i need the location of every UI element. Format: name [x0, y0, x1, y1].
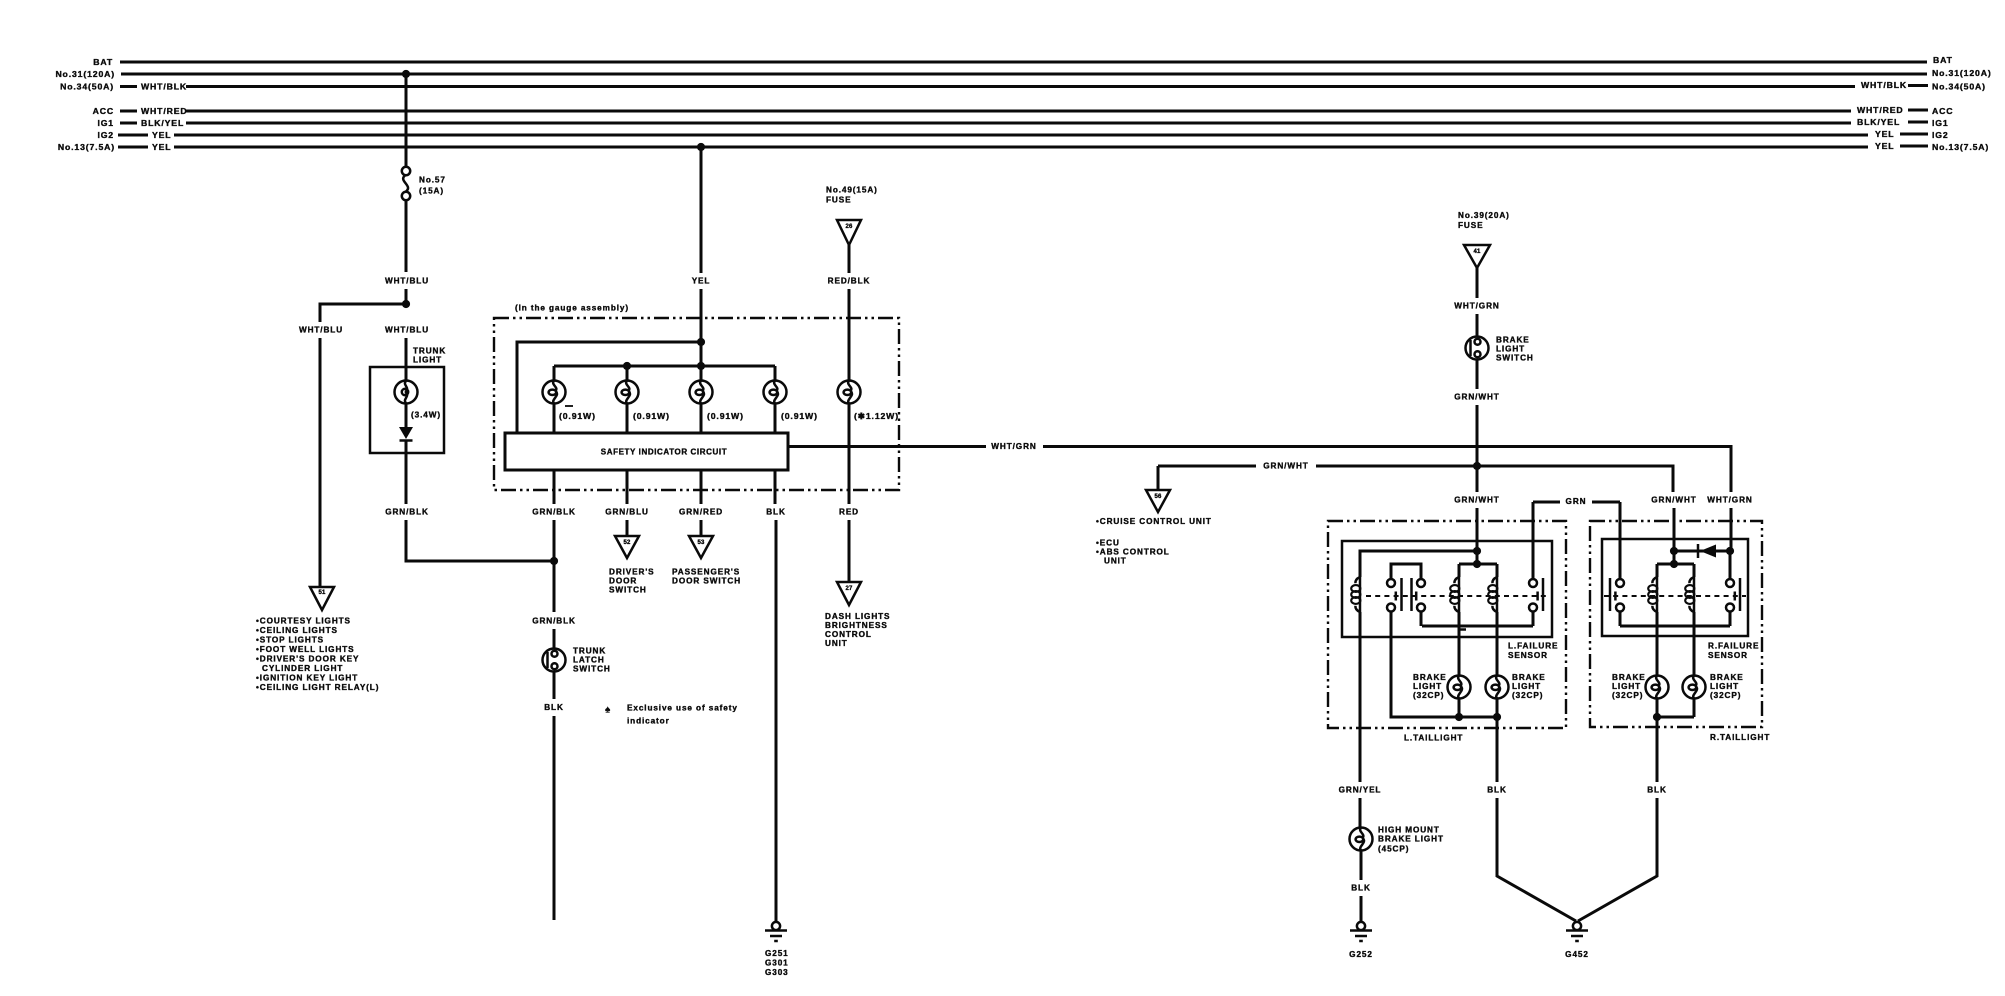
svg-text:LIGHT: LIGHT [413, 356, 442, 365]
svg-text:GRN/YEL: GRN/YEL [1339, 786, 1382, 795]
coil L3 [1496, 564, 1499, 577]
node junction A [402, 300, 410, 308]
svg-text:BRAKE: BRAKE [1710, 673, 1744, 682]
svg-text:•ABS CONTROL: •ABS CONTROL [1096, 548, 1170, 557]
svg-text:WHT/BLU: WHT/BLU [385, 277, 429, 286]
coil R1 [1656, 564, 1659, 577]
wire IG2 stub left [118, 134, 148, 137]
brake light bulb R1 (32CP) [1646, 676, 1669, 699]
svg-text:(32CP): (32CP) [1612, 691, 1643, 700]
safety indicator circuit U1 [505, 433, 788, 470]
svg-text:HIGH MOUNT: HIGH MOUNT [1378, 826, 1440, 835]
svg-text:(32CP): (32CP) [1512, 691, 1543, 700]
wire high mount down [1360, 851, 1363, 881]
wire GRN jumper left [1533, 501, 1560, 504]
wire bulb L1 top [1458, 626, 1461, 676]
svg-text:WHT/BLU: WHT/BLU [385, 326, 429, 335]
coil L1 (left) [1351, 577, 1360, 612]
wire fuse 39 down [1476, 268, 1479, 298]
wire contact K1 bracket [1391, 564, 1421, 580]
contact K4 terminals [1726, 579, 1734, 587]
svg-text:FUSE: FUSE [1458, 221, 1483, 230]
wire GRN/WHT horizontal [1158, 465, 1256, 468]
wire contact K4 bottom stem [1729, 612, 1732, 627]
svg-text:SENSOR: SENSOR [1708, 651, 1748, 660]
wire R bulb bottom bar [1657, 716, 1694, 719]
svg-text:CONTROL: CONTROL [825, 630, 872, 639]
svg-text:LIGHT: LIGHT [1512, 682, 1541, 691]
L taillight dashed box [1328, 521, 1566, 728]
svg-text:YEL: YEL [152, 130, 171, 140]
svg-text:R.FAILURE: R.FAILURE [1708, 642, 1759, 651]
svg-text:(✱1.12W): (✱1.12W) [854, 411, 899, 421]
svg-text:Exclusive use of safety: Exclusive use of safety [627, 704, 738, 713]
svg-text:No.31(120A): No.31(120A) [1932, 68, 1992, 78]
contact K3 plate [1609, 578, 1612, 611]
wire bulb4 top [774, 366, 777, 381]
svg-text:WHT/GRN: WHT/GRN [1707, 496, 1752, 505]
wire IG1 bus [186, 122, 1851, 125]
svg-text:G452: G452 [1565, 950, 1589, 959]
wire stub at coil L2 bottom [1459, 628, 1466, 631]
wire GRN jumper right [1592, 501, 1620, 504]
brake light switch S2 [1466, 337, 1489, 360]
svg-text:GRN/RED: GRN/RED [679, 508, 723, 517]
R taillight dashed box [1590, 521, 1762, 727]
L failure sensor box [1342, 541, 1552, 637]
svg-text:(0.91W): (0.91W) [707, 411, 744, 421]
fuse No.49 connector triangle [837, 220, 861, 245]
svg-text:(0.91W): (0.91W) [633, 411, 670, 421]
ground G252 [1350, 922, 1372, 941]
svg-text:LIGHT: LIGHT [1413, 682, 1442, 691]
svg-text:LIGHT: LIGHT [1612, 682, 1641, 691]
svg-text:(32CP): (32CP) [1710, 691, 1741, 700]
wire bulb L1 bottom [1458, 699, 1461, 718]
svg-text:BLK: BLK [1487, 786, 1507, 795]
wire bulb to diode [405, 403, 408, 428]
svg-text:YEL: YEL [1875, 129, 1894, 139]
svg-text:DOOR: DOOR [609, 577, 637, 586]
ground G452 [1566, 922, 1588, 941]
svg-text:(In the gauge assembly): (In the gauge assembly) [515, 304, 629, 313]
svg-text:GRN/BLK: GRN/BLK [532, 508, 576, 517]
contact K2 plate [1542, 578, 1545, 611]
svg-text:G251: G251 [765, 949, 789, 958]
node bulb L1 bottom junction [1455, 713, 1463, 721]
wire contact K1 right stem [1420, 612, 1423, 627]
wire pin4 below box (BLK) [774, 470, 777, 504]
svg-text:(0.91W): (0.91W) [781, 411, 818, 421]
svg-text:No.34(50A): No.34(50A) [60, 82, 114, 92]
svg-text:indicator: indicator [627, 717, 670, 726]
wire left branch down [319, 338, 322, 587]
fuse No.57 (15A) [402, 167, 410, 175]
svg-text:BLK/YEL: BLK/YEL [141, 118, 184, 128]
svg-text:IG1: IG1 [97, 118, 114, 128]
trunk latch switch S1 [543, 649, 566, 672]
svg-text:TRUNK: TRUNK [573, 647, 606, 656]
wire No.13 stub right [1900, 145, 1928, 148]
fuse No.39 connector triangle [1464, 245, 1490, 268]
bulb indicator 4 (0.91W) [764, 381, 787, 404]
node bus junction b3 [697, 362, 705, 370]
wire cruise branch down [1157, 466, 1160, 490]
bulb trunk light (3.4W) [395, 381, 418, 404]
wire GRN/WHT into coil bar [1476, 551, 1479, 564]
wire bulb R2 bottom [1693, 699, 1696, 718]
wire L BLK to ground [1497, 798, 1576, 921]
wire latch down [553, 672, 556, 700]
wire GRN into R taillight [1619, 502, 1622, 580]
node GRN/WHT junction in L sensor [1473, 547, 1481, 555]
svg-text:(45CP): (45CP) [1378, 845, 1409, 854]
contact K2 terminals [1529, 579, 1537, 587]
node WHT/GRN junction in R sensor [1726, 547, 1734, 555]
svg-text:•CEILING LIGHT RELAY(L): •CEILING LIGHT RELAY(L) [256, 683, 379, 692]
svg-text:G303: G303 [765, 968, 789, 977]
svg-text:YEL: YEL [1875, 141, 1894, 151]
wire pin3 below box (GRN/RED) [700, 470, 703, 504]
svg-text:FUSE: FUSE [826, 196, 851, 205]
wire to latch switch [553, 561, 556, 612]
wire YEL into gauge assembly [700, 289, 703, 381]
trunk light box [370, 367, 444, 453]
node GRN/WHT junction in R sensor [1670, 547, 1678, 555]
wire contact K3 bottom stem [1619, 612, 1622, 627]
node GRN/WHT junction [1473, 462, 1481, 470]
wire GRN/WHT to L taillight [1476, 466, 1479, 492]
svg-text:RED/BLK: RED/BLK [828, 277, 871, 286]
svg-text:SENSOR: SENSOR [1508, 651, 1548, 660]
wire bulb L2 top [1496, 626, 1499, 676]
connector 53 [689, 536, 713, 558]
wire bulb2 bottom [626, 403, 629, 433]
node bulb R1 bottom junction [1653, 713, 1661, 721]
node coil bar junction [1473, 560, 1481, 568]
wire branch left [320, 304, 406, 322]
wire ACC stub right [1908, 109, 1928, 112]
node junction trunk branch [550, 557, 558, 565]
connector 51 [310, 587, 334, 610]
svg-text:IG2: IG2 [97, 130, 114, 140]
svg-text:No.13(7.5A): No.13(7.5A) [58, 142, 115, 152]
svg-text:No.39(20A): No.39(20A) [1458, 211, 1510, 220]
svg-text:BRAKE: BRAKE [1496, 336, 1530, 345]
svg-text:L.FAILURE: L.FAILURE [1508, 642, 1558, 651]
svg-text:SWITCH: SWITCH [609, 586, 647, 595]
wire No.34 stub right [1908, 84, 1928, 87]
svg-text:DASH LIGHTS: DASH LIGHTS [825, 612, 890, 621]
wire bulb bus [554, 365, 775, 368]
wire WHT/GRN from safety indicator circuit [788, 445, 986, 448]
svg-text:IG1: IG1 [1932, 118, 1949, 128]
coil R2 [1693, 564, 1696, 577]
svg-text:•ECU: •ECU [1096, 539, 1120, 548]
node YEL junction [697, 338, 705, 346]
wire IG1 stub left [120, 122, 137, 125]
contact K4 plate [1739, 578, 1742, 611]
wire BLK to ground G252 [1360, 896, 1363, 923]
svg-text:•STOP LIGHTS: •STOP LIGHTS [256, 636, 324, 645]
wire bulb5 down [848, 403, 851, 504]
wire bulb L2 bottom [1496, 699, 1499, 718]
wire to latch switch 2 [553, 629, 556, 649]
wire to brake light switch [1476, 314, 1479, 337]
contact K1 terminals [1387, 579, 1395, 587]
svg-text:41: 41 [1473, 249, 1481, 255]
svg-text:SWITCH: SWITCH [573, 665, 611, 674]
bulb indicator 2 (0.91W) [616, 381, 639, 404]
svg-text:LIGHT: LIGHT [1710, 682, 1739, 691]
wire RED/BLK down [848, 289, 851, 381]
node R coil bar junction [1670, 560, 1678, 568]
wire switch out down [1476, 405, 1479, 466]
wire GRN/WHT to right [1316, 466, 1673, 492]
wire WHT/GRN into R taillight [1730, 508, 1733, 551]
svg-text:No.13(7.5A): No.13(7.5A) [1932, 142, 1989, 152]
svg-text:•DRIVER'S DOOR KEY: •DRIVER'S DOOR KEY [256, 655, 359, 664]
wire No.31 bus [121, 73, 1927, 76]
wire bulb R1 bottom [1656, 699, 1659, 718]
wire bulb1 top [553, 366, 556, 381]
contact K3 terminals [1616, 579, 1624, 587]
svg-text:GRN: GRN [1566, 497, 1587, 506]
svg-text:BLK: BLK [544, 703, 564, 712]
actuator tick marks R [1615, 592, 1734, 601]
svg-text:BLK/YEL: BLK/YEL [1857, 117, 1900, 127]
wire from No.31 down to fuse No.57 [405, 74, 408, 167]
wire No.13 down (YEL) [700, 147, 703, 273]
svg-text:No.57: No.57 [419, 176, 446, 185]
wire bulb R2 top [1693, 626, 1696, 676]
svg-text:BRAKE LIGHT: BRAKE LIGHT [1378, 835, 1444, 844]
brake light bulb R2 (32CP) [1683, 676, 1706, 699]
wire GRN into L taillight [1532, 502, 1535, 580]
svg-text:YEL: YEL [152, 142, 171, 152]
svg-text:56: 56 [1154, 494, 1162, 500]
high mount brake light bulb (45CP) [1350, 828, 1373, 851]
svg-text:GRN/WHT: GRN/WHT [1651, 496, 1696, 505]
wire bulb2 top [626, 366, 629, 381]
wire bulb1 bottom [553, 403, 556, 433]
brake light bulb L2 (32CP) [1486, 676, 1509, 699]
wire R coil bottom bar [1620, 625, 1730, 628]
svg-text:•CRUISE CONTROL UNIT: •CRUISE CONTROL UNIT [1096, 517, 1212, 526]
svg-text:27: 27 [845, 586, 853, 592]
svg-text:WHT/RED: WHT/RED [1857, 105, 1904, 115]
svg-text:51: 51 [318, 590, 326, 596]
svg-text:No.49(15A): No.49(15A) [826, 186, 878, 195]
svg-text:26: 26 [845, 224, 853, 230]
node bus junction b2 [623, 362, 631, 370]
svg-text:WHT/BLK: WHT/BLK [1861, 80, 1907, 90]
svg-text:WHT/GRN: WHT/GRN [991, 442, 1036, 451]
wire trunk branch to junction with latch line [406, 520, 554, 561]
wire RED down [848, 520, 851, 582]
brake light bulb L1 (32CP) [1448, 676, 1471, 699]
coil L2 [1458, 564, 1461, 577]
wire L BLK down [1496, 717, 1499, 782]
svg-text:G252: G252 [1349, 950, 1373, 959]
wire to junction A [405, 289, 408, 304]
svg-text:GRN/BLU: GRN/BLU [605, 508, 649, 517]
svg-text:G301: G301 [765, 959, 789, 968]
wire switch down [1476, 360, 1479, 390]
bulb indicator 1 (0.91W) [543, 381, 566, 404]
svg-text:WHT/GRN: WHT/GRN [1454, 302, 1499, 311]
svg-text:BLK: BLK [1351, 884, 1371, 893]
svg-text:GRN/BLK: GRN/BLK [385, 508, 429, 517]
wire No.34 bus [186, 85, 1855, 88]
actuator tick marks L [1396, 592, 1538, 601]
connector 56 [1146, 490, 1170, 512]
wire IG2 stub right [1900, 133, 1928, 136]
wire bulb4 bottom [774, 403, 777, 433]
svg-text:No.31(120A): No.31(120A) [55, 69, 115, 79]
svg-text:52: 52 [623, 540, 631, 546]
contact K1 plates [1402, 578, 1412, 611]
svg-text:BRAKE: BRAKE [1512, 673, 1546, 682]
wire BAT bus [120, 61, 1927, 64]
svg-text:(0.91W): (0.91W) [559, 411, 596, 421]
wire WHT/GRN to right [1043, 447, 1731, 493]
svg-text:WHT/BLU: WHT/BLU [299, 326, 343, 335]
svg-text:•COURTESY LIGHTS: •COURTESY LIGHTS [256, 617, 351, 626]
svg-text:BRAKE: BRAKE [1413, 673, 1447, 682]
svg-text:ACC: ACC [93, 106, 114, 116]
svg-text:(3.4W): (3.4W) [411, 411, 441, 420]
wire fuse 49 down [848, 245, 851, 273]
svg-text:No.34(50A): No.34(50A) [1932, 82, 1986, 92]
diode in trunk light [399, 427, 413, 439]
svg-text:DOOR SWITCH: DOOR SWITCH [672, 577, 741, 586]
wire GRN/WHT into R coil bar [1673, 551, 1676, 564]
svg-text:SAFETY INDICATOR CIRCUIT: SAFETY INDICATOR CIRCUIT [601, 448, 727, 457]
svg-text:SWITCH: SWITCH [1496, 354, 1534, 363]
wire GRN/YEL down [1359, 612, 1362, 782]
bulb indicator 5 (1.12W) [838, 381, 861, 404]
wire GRN/WHT into L taillight [1476, 508, 1479, 551]
svg-text:DRIVER'S: DRIVER'S [609, 568, 655, 577]
svg-text:BRAKE: BRAKE [1612, 673, 1646, 682]
wire R BLK down [1656, 717, 1659, 782]
wire ACC stub left [120, 110, 137, 113]
svg-text:ACC: ACC [1932, 106, 1953, 116]
wire L coil bottom bar [1422, 625, 1533, 628]
wire GRN/YEL to bulb [1359, 798, 1362, 828]
svg-text:BLK: BLK [1647, 786, 1667, 795]
wire R BLK to ground [1578, 798, 1657, 921]
diode D1 [1697, 544, 1700, 558]
ground G251 G301 G303 [765, 922, 787, 941]
svg-text:RED: RED [839, 508, 859, 517]
svg-text:R.TAILLIGHT: R.TAILLIGHT [1710, 733, 1770, 742]
junction on No.31 bus [402, 70, 410, 78]
svg-text:•IGNITION KEY LIGHT: •IGNITION KEY LIGHT [256, 674, 358, 683]
svg-text:GRN/WHT: GRN/WHT [1454, 496, 1499, 505]
svg-text:LATCH: LATCH [573, 656, 605, 665]
svg-text:UNIT: UNIT [1104, 557, 1127, 566]
svg-text:♠: ♠ [605, 705, 611, 716]
connector 27 [837, 582, 861, 605]
wire gauge feed left [517, 342, 701, 433]
connector 52 [615, 536, 639, 558]
actuator dashed link R [1604, 595, 1746, 597]
wire diode to box bottom [405, 441, 408, 504]
gauge assembly dashed box [494, 318, 899, 490]
wire L sensor top link [1360, 551, 1477, 577]
junction on No.13 bus [697, 143, 705, 151]
svg-text:BLK: BLK [766, 508, 786, 517]
R failure sensor box [1602, 539, 1748, 636]
wire latch BLK down [553, 716, 556, 920]
svg-text:GRN/WHT: GRN/WHT [1454, 393, 1499, 402]
svg-text:(32CP): (32CP) [1413, 691, 1444, 700]
wire contact K1 left stem down [1391, 612, 1497, 718]
wire R coil top bar [1657, 563, 1694, 566]
node bulb L2 bottom junction [1493, 713, 1501, 721]
wire ACC bus [186, 110, 1851, 113]
svg-text:WHT/RED: WHT/RED [141, 106, 188, 116]
svg-text:53: 53 [697, 540, 705, 546]
svg-text:TRUNK: TRUNK [413, 347, 446, 356]
actuator dashed link L [1366, 595, 1549, 597]
wire bulb R1 top [1656, 626, 1659, 676]
wire contact K4 top stem [1729, 551, 1732, 580]
svg-text:LIGHT: LIGHT [1496, 345, 1525, 354]
wire contact K2 bottom stem [1532, 612, 1535, 627]
wire fuse to junction [405, 200, 408, 272]
svg-text:(15A): (15A) [419, 187, 444, 196]
wire IG2 bus [174, 134, 1868, 137]
svg-text:YEL: YEL [692, 277, 711, 286]
wire GRN/WHT into R taillight [1673, 508, 1676, 551]
svg-text:CYLINDER LIGHT: CYLINDER LIGHT [262, 664, 343, 673]
wire diode link [1674, 550, 1730, 553]
svg-text:L.TAILLIGHT: L.TAILLIGHT [1404, 734, 1463, 743]
wire main down to trunk light [405, 338, 408, 381]
svg-text:UNIT: UNIT [825, 639, 848, 648]
svg-text:IG2: IG2 [1932, 130, 1949, 140]
svg-text:BRIGHTNESS: BRIGHTNESS [825, 621, 888, 630]
svg-text:GRN/WHT: GRN/WHT [1263, 462, 1308, 471]
svg-text:GRN/BLK: GRN/BLK [532, 617, 576, 626]
wire No.34 stub left [120, 85, 137, 88]
svg-text:•FOOT WELL LIGHTS: •FOOT WELL LIGHTS [256, 645, 355, 654]
wire L coil top bar [1459, 563, 1497, 566]
wire bulb3 bottom [700, 403, 703, 433]
svg-text:BAT: BAT [93, 57, 113, 67]
wire IG1 stub right [1908, 121, 1928, 124]
wire No.13 stub left [118, 146, 148, 149]
bulb indicator 3 (0.91W) [690, 381, 713, 404]
wire pin2 below box (GRN/BLU) [626, 470, 629, 504]
wire No.13 bus [174, 146, 1868, 149]
svg-text:BAT: BAT [1933, 55, 1953, 65]
svg-text:WHT/BLK: WHT/BLK [141, 82, 187, 92]
svg-text:•CEILING LIGHTS: •CEILING LIGHTS [256, 626, 338, 635]
wire pin1 below box (GRN/BLK) [553, 470, 556, 504]
svg-text:PASSENGER'S: PASSENGER'S [672, 568, 740, 577]
